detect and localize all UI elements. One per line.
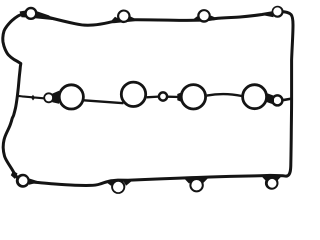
wedge right of bolt hole BL	[29, 178, 41, 185]
rail connector seal3-seal4	[207, 94, 242, 96]
web wedges around bolt hole B4	[262, 176, 273, 181]
rail connector grommet M-seal 3 with wedge	[167, 96, 180, 99]
spark plug tube seal 3	[181, 85, 205, 109]
web wedges around bolt hole B2	[105, 180, 118, 186]
filled web between grommet L and tube seal 1	[52, 91, 59, 104]
small grommet M	[159, 92, 167, 100]
bolt hole T3 (top, above line)	[197, 9, 211, 23]
spark plug tube seal 2	[121, 82, 145, 106]
bolt hole B3 (bottom, below line)	[189, 178, 203, 192]
wedge left of bolt hole T4	[263, 12, 274, 18]
bolt hole BL (bottom-left, on loop)	[16, 174, 30, 188]
top-left corner thick blob left of bolt hole T1	[20, 10, 31, 18]
web wedges around bolt hole T3	[191, 16, 204, 21]
small grommet L	[43, 92, 54, 103]
bolt hole B2 (bottom, below line)	[111, 180, 125, 194]
tapering wedge right of bolt hole T1	[35, 11, 55, 21]
branch line from left edge to spark-plug rail	[18, 96, 44, 99]
spark plug tube seal 1	[59, 85, 83, 109]
bolt hole T4 (top-right corner, on loop)	[272, 6, 284, 18]
gasket outer perimeter loop	[3, 12, 293, 186]
spark plug tube seal 4	[243, 85, 267, 109]
web wedges around bolt hole T2	[110, 17, 123, 22]
rail connector seal2-grommet M	[147, 95, 159, 98]
rail connector seal1-seal2	[84, 100, 124, 103]
bolt hole T2 (top, above line)	[117, 9, 131, 23]
small diamond bead on branch line	[31, 95, 35, 101]
bolt hole B4 (bottom, below line)	[265, 176, 279, 190]
link from grommet R to right edge	[283, 99, 292, 101]
junction blob upper-left of bolt hole BL	[11, 171, 18, 179]
web wedges around bolt hole B3	[184, 178, 197, 184]
filled web between seal 4 and grommet R	[267, 93, 275, 105]
small grommet R	[272, 95, 282, 105]
bolt hole T1 (top-left, on loop)	[24, 7, 37, 20]
